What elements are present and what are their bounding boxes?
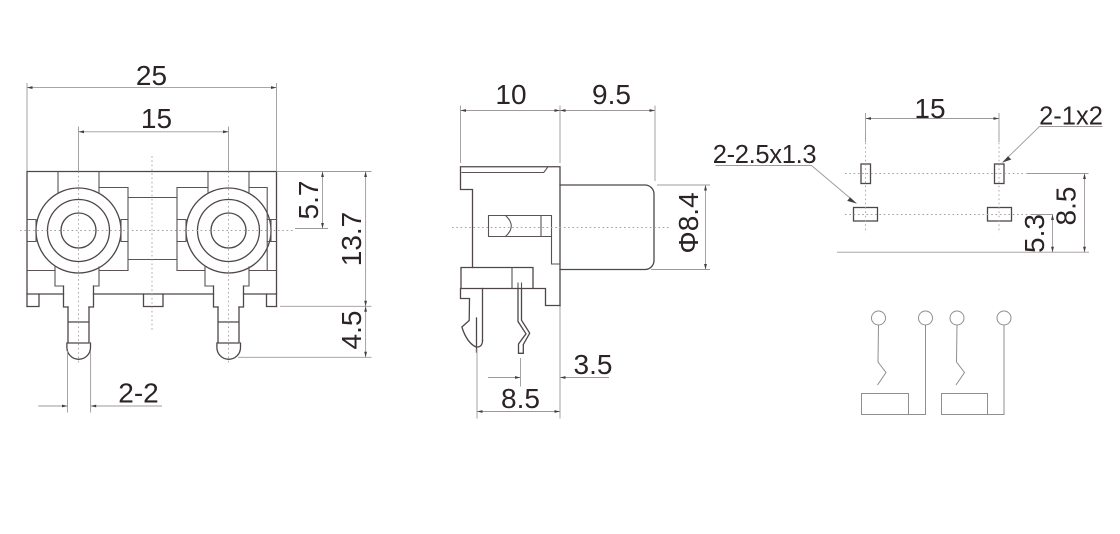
svg-text:25: 25 [136,60,167,91]
jack J2 bottom boss [205,267,249,286]
jack J2 inner circle [211,213,246,248]
body horizontal centerline [20,230,293,232]
contact box 2 [942,394,988,415]
jack J1 shelf lines [27,188,128,271]
label 2-2.5x1.3 with leader [713,141,857,204]
body vertical centerline [151,156,153,331]
pad P2 (1x2) right [995,164,1005,184]
mounting foot left [27,294,39,307]
schematic terminal circle 3 [950,311,964,325]
dimension 13.7 [280,172,372,307]
side body outline [461,167,561,306]
jack J2 vertical centerline [228,163,230,363]
dimension 9.5 [560,79,655,181]
flange pin dividers [512,268,522,289]
dimension 10 [461,79,561,163]
pad centerline vertical right [998,134,1000,233]
label 2-1x2 with leader [1003,103,1103,163]
jack J2 leg pin [218,307,239,343]
zigzag pin [518,289,530,354]
front view body outline [27,172,277,307]
jack J1 leg upper [64,286,94,307]
side mounting flange [461,268,560,306]
jack J1 middle circle [48,200,110,262]
jack J1 top boss [58,172,99,194]
dimension 15 front [79,103,229,171]
svg-text:2-1x2: 2-1x2 [1039,103,1103,131]
dimension 15 pcb [866,93,1000,142]
center bridge block [128,188,177,271]
mounting foot center [144,294,164,307]
switch lever 1 [878,325,887,385]
jack J2 top boss [208,172,249,194]
jack J2 middle circle [198,200,260,262]
svg-text:9.5: 9.5 [592,79,631,110]
jack J1 pin tip [67,343,91,359]
schematic terminal circle 2 [919,311,933,325]
svg-text:13.7: 13.7 [336,212,367,267]
board reference line [837,251,1089,253]
jack J2 outer circle [186,188,271,273]
jack J2 leg upper [214,286,244,307]
svg-text:15: 15 [141,103,172,134]
pad centerline vertical left [865,134,867,233]
svg-text:8.5: 8.5 [501,383,540,414]
jack J1 vertical centerline [78,163,80,363]
jack J2 shelf lines [177,188,277,271]
svg-text:Φ8.4: Φ8.4 [673,192,704,253]
svg-text:15: 15 [914,93,945,124]
svg-text:5.3: 5.3 [1019,214,1050,253]
pad P4 (2.5x1.3) right [988,208,1012,222]
schematic terminal circle 1 [872,311,886,325]
wire pin 4 [988,325,1005,415]
svg-text:5.7: 5.7 [293,181,324,220]
dimension 4.5 [238,306,372,357]
jack J2 side tabs [177,220,277,242]
svg-text:2-2: 2-2 [118,378,158,409]
svg-text:8.5: 8.5 [1051,187,1082,226]
jack J1 bottom boss [55,267,99,286]
contact box 1 [862,394,909,415]
schematic terminal circle 4 [997,311,1011,325]
mounting foot right [267,294,277,307]
dimension phi 8.4 [651,185,710,270]
dimension 8.5 side [477,306,560,419]
wire pin 2 [909,325,926,415]
side contact slot [489,216,561,265]
jack J2 pin tip [217,343,241,359]
pad P1 (1x2) left [861,164,871,184]
side view centerline [452,227,670,229]
jack J1 outer circle [36,188,121,273]
jack J1 leg pin [68,307,89,343]
dimension 5.7 [277,172,372,229]
jack J1 inner circle [61,213,96,248]
dimension 2-2 [38,351,162,413]
dimension 8.5 pcb [1027,174,1089,253]
pad centerline horizontal lower [845,214,1030,216]
side body lip line [462,167,548,173]
hook pin [461,289,483,353]
svg-text:2-2.5x1.3: 2-2.5x1.3 [713,141,817,169]
svg-text:10: 10 [495,79,526,110]
svg-text:3.5: 3.5 [574,349,613,380]
dimension 25 [27,60,277,171]
svg-text:4.5: 4.5 [336,311,367,350]
dimension 3.5 [488,349,612,387]
pad P3 (2.5x1.3) left [854,208,878,222]
switch lever 3 [956,325,965,385]
dimension 5.3 pcb [1019,214,1054,253]
pad centerline horizontal upper [845,173,1027,175]
barrel (RCA sleeve) [560,185,654,270]
jack J1 side tabs [27,220,128,242]
